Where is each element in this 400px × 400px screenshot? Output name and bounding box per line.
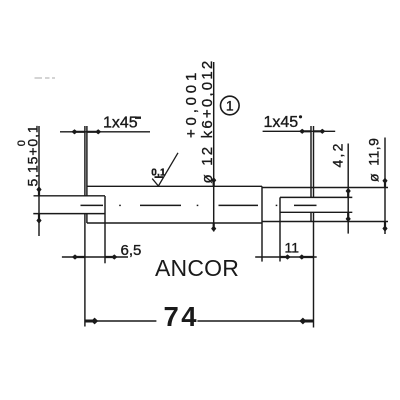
wire left bore edge xyxy=(104,196,106,263)
dimension 11 line xyxy=(255,256,317,258)
svg-text:11: 11 xyxy=(285,240,300,256)
svg-text:11,9: 11,9 xyxy=(366,138,382,166)
symbol roughness underline band xyxy=(155,176,164,178)
dim dia12 arrows xyxy=(211,177,216,186)
wire faint smudge xyxy=(35,77,56,79)
svg-text:6,5: 6,5 xyxy=(121,242,142,259)
dim 4,2 arrows xyxy=(346,188,351,198)
dimension 4,2 line xyxy=(347,144,349,234)
dim 1x45 right arrows xyxy=(299,129,311,134)
node right end face extension upper xyxy=(313,126,315,197)
dim 6,5 arrows xyxy=(72,254,85,259)
svg-text:5,15+0,1: 5,15+0,1 xyxy=(25,124,41,186)
svg-text:4,2: 4,2 xyxy=(330,141,346,167)
dimension 5,15 line xyxy=(38,126,40,236)
wire right chamfer lower xyxy=(310,212,312,221)
dimension 1x45 right line xyxy=(263,130,336,132)
wire step face xyxy=(261,186,263,261)
wire stub left edge xyxy=(279,197,281,261)
wire left journal top xyxy=(34,195,106,197)
dimension dia12 line xyxy=(213,62,215,232)
symbol surface finish tick xyxy=(152,153,178,186)
node circled 1 balloon xyxy=(221,96,240,115)
svg-text:1x45: 1x45 xyxy=(103,115,138,132)
svg-text:1x45: 1x45 xyxy=(264,114,299,131)
svg-text:ø 12 k6+0,012: ø 12 k6+0,012 xyxy=(199,59,216,184)
label degree mark right xyxy=(299,115,302,118)
svg-text:+0,001: +0,001 xyxy=(183,69,200,138)
dimension 74 line right segment xyxy=(197,320,313,322)
wire stub top xyxy=(280,196,352,198)
svg-text:0: 0 xyxy=(16,140,28,146)
wire shaft bottom edge dia11,9 xyxy=(262,221,388,223)
wire left chamfer upper xyxy=(86,126,88,196)
dimension dia11,9 line xyxy=(384,138,386,235)
svg-text:74: 74 xyxy=(164,301,200,332)
dim 5,15 arrows xyxy=(36,186,41,196)
dimension 6,5 line xyxy=(62,256,128,258)
svg-text:1: 1 xyxy=(226,98,234,114)
svg-text:ø: ø xyxy=(366,173,382,182)
dimension 74 line left segment xyxy=(85,320,156,322)
wire left journal bottom xyxy=(33,213,105,215)
wire right chamfer upper xyxy=(310,126,312,197)
dim 1x45 left arrows xyxy=(71,129,85,134)
node left face extension lower xyxy=(84,214,86,327)
dim 74 arrows xyxy=(85,318,98,325)
arrows xyxy=(36,129,387,325)
svg-text:ANCOR: ANCOR xyxy=(155,255,239,281)
dim dia11,9 arrows xyxy=(382,178,387,188)
dim 11 arrows xyxy=(280,254,291,259)
dimension 1x45 left line xyxy=(60,131,150,133)
label degree mark left xyxy=(135,117,141,119)
wire shaft top edge dia12 xyxy=(87,185,262,187)
wire shaft bottom edge dia12 xyxy=(87,222,262,224)
node right end face extension lower xyxy=(313,212,315,327)
wire left chamfer lower xyxy=(86,214,88,223)
wire stub bottom xyxy=(280,211,352,213)
node left face extension upper xyxy=(84,126,86,196)
node centerline xyxy=(81,204,317,206)
wire shaft top edge dia11,9 xyxy=(262,187,388,189)
